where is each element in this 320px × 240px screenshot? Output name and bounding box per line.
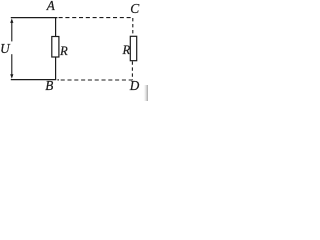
svg-text:B: B (45, 78, 53, 93)
svg-text:R: R (59, 44, 68, 58)
svg-text:C: C (130, 1, 140, 16)
svg-text:R: R (122, 43, 131, 57)
svg-text:A: A (46, 0, 56, 13)
svg-text:D: D (129, 78, 140, 93)
svg-text:U: U (0, 41, 11, 56)
